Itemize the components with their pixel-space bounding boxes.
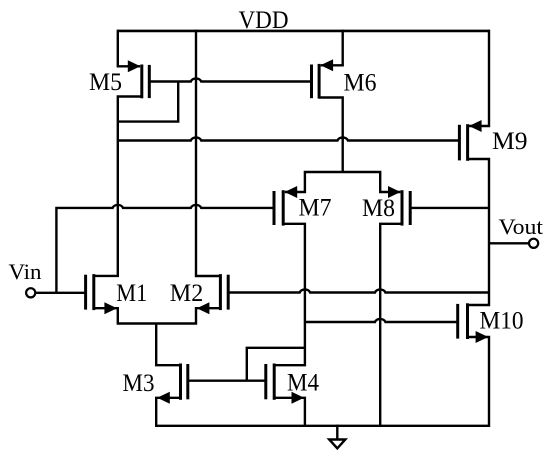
- svg-text:M10: M10: [480, 308, 524, 335]
- svg-text:M4: M4: [287, 370, 319, 397]
- svg-text:M6: M6: [344, 70, 377, 97]
- svg-text:Vout: Vout: [499, 214, 544, 239]
- svg-text:M3: M3: [123, 370, 155, 397]
- svg-text:M2: M2: [170, 280, 204, 307]
- svg-text:M7: M7: [299, 195, 332, 222]
- svg-text:M1: M1: [116, 280, 147, 307]
- svg-text:M5: M5: [89, 69, 122, 96]
- svg-text:Vin: Vin: [9, 259, 42, 284]
- svg-text:VDD: VDD: [239, 7, 289, 34]
- svg-text:M8: M8: [362, 195, 395, 222]
- svg-text:M9: M9: [492, 128, 528, 155]
